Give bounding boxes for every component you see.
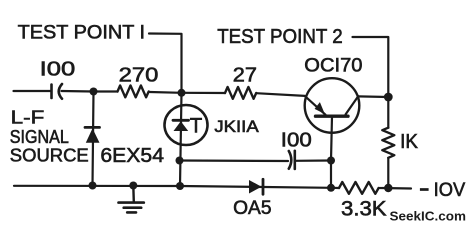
resistor R2 27 — [225, 87, 256, 99]
svg-text:SeekIC.com: SeekIC.com — [390, 208, 467, 223]
svg-text:IOV: IOV — [434, 179, 466, 201]
wire node B down through tunnel diode to bottom rail — [180, 93, 182, 186]
wire node C down to R4 — [387, 97, 389, 128]
svg-text:SOURCE: SOURCE — [10, 145, 89, 166]
middle rail left junction dot — [176, 157, 184, 165]
wire collector to node C — [358, 95, 388, 98]
svg-text:T: T — [190, 114, 203, 138]
resistor R3 3.3K — [339, 182, 379, 194]
svg-text:IK: IK — [400, 131, 418, 153]
ground bar 3 — [127, 211, 136, 214]
transistor Q1 base bar — [316, 114, 349, 117]
tunnel diode D1 triangle — [174, 121, 189, 131]
wire middle rail left segment — [180, 159, 289, 162]
svg-text:OA5: OA5 — [233, 197, 272, 219]
svg-text:3.3K: 3.3K — [341, 198, 387, 221]
resistor R4 1K vertical — [382, 128, 394, 158]
transistor Q1 circle — [305, 78, 360, 133]
wire base lead down — [331, 116, 332, 188]
wire R1 to node B — [150, 91, 182, 94]
svg-text:I00: I00 — [40, 58, 76, 80]
wire node A to R1 — [94, 90, 118, 92]
bottom rail node A junction dot — [89, 182, 97, 190]
wire R4 to bottom rail — [387, 158, 389, 188]
svg-text:TEST POINT I: TEST POINT I — [18, 22, 146, 44]
wire top rail left stub — [14, 90, 52, 92]
resistor R1 270 — [118, 86, 149, 98]
middle rail right junction dot — [327, 157, 335, 165]
node B junction dot — [178, 89, 186, 97]
capacitor C1 100 input — [50, 85, 53, 99]
diode D3 OA5 cathode bar — [262, 179, 265, 194]
ground bar 2 — [124, 206, 142, 209]
svg-text:270: 270 — [119, 64, 159, 86]
svg-text:6EX54: 6EX54 — [100, 144, 164, 167]
diode D3 OA5 triangle — [249, 180, 262, 194]
svg-text:I00: I00 — [281, 129, 312, 151]
transistor Q1 emitter arrow — [315, 102, 325, 114]
svg-text:TEST POINT 2: TEST POINT 2 — [217, 26, 343, 48]
diode D2 6EX54 triangle — [86, 128, 100, 142]
transistor Q1 collector diagonal — [346, 96, 359, 114]
bottom rail base lead junction dot — [327, 184, 335, 192]
wire node B to R2 — [182, 92, 226, 94]
node A junction dot — [90, 88, 98, 96]
tunnel diode D1 cathode bar — [173, 119, 189, 122]
transistor Q1 emitter diagonal — [305, 96, 326, 115]
label -10V minus — [420, 188, 429, 191]
wire cap to node A — [62, 90, 94, 93]
bottom rail right junction dot — [384, 184, 392, 192]
bottom rail tunnel line junction dot — [176, 182, 184, 190]
node C junction dot — [384, 93, 393, 102]
ground bar 1 — [119, 201, 144, 204]
svg-text:JKIIA: JKIIA — [214, 117, 259, 136]
svg-text:OCI70: OCI70 — [304, 55, 362, 77]
diode D2 6EX54 cathode bar — [85, 126, 100, 129]
wire 3.3K to -10V terminal — [380, 187, 411, 190]
wire middle rail right segment — [296, 159, 332, 162]
wire R2 to transistor emitter — [256, 93, 305, 96]
bottom rail ground junction dot — [129, 182, 137, 190]
tunnel diode D1 circle — [165, 105, 208, 145]
wire test point 2 drop — [353, 37, 389, 97]
ground stub — [132, 186, 135, 202]
wire bottom rail — [14, 186, 339, 188]
svg-text:L-F: L-F — [11, 107, 45, 128]
svg-text:27: 27 — [233, 64, 257, 86]
wire test point 1 drop — [149, 34, 182, 93]
capacitor C2 100 coupling — [289, 151, 292, 169]
wire node A down through diode 6EX54 to bottom rail — [93, 92, 94, 186]
